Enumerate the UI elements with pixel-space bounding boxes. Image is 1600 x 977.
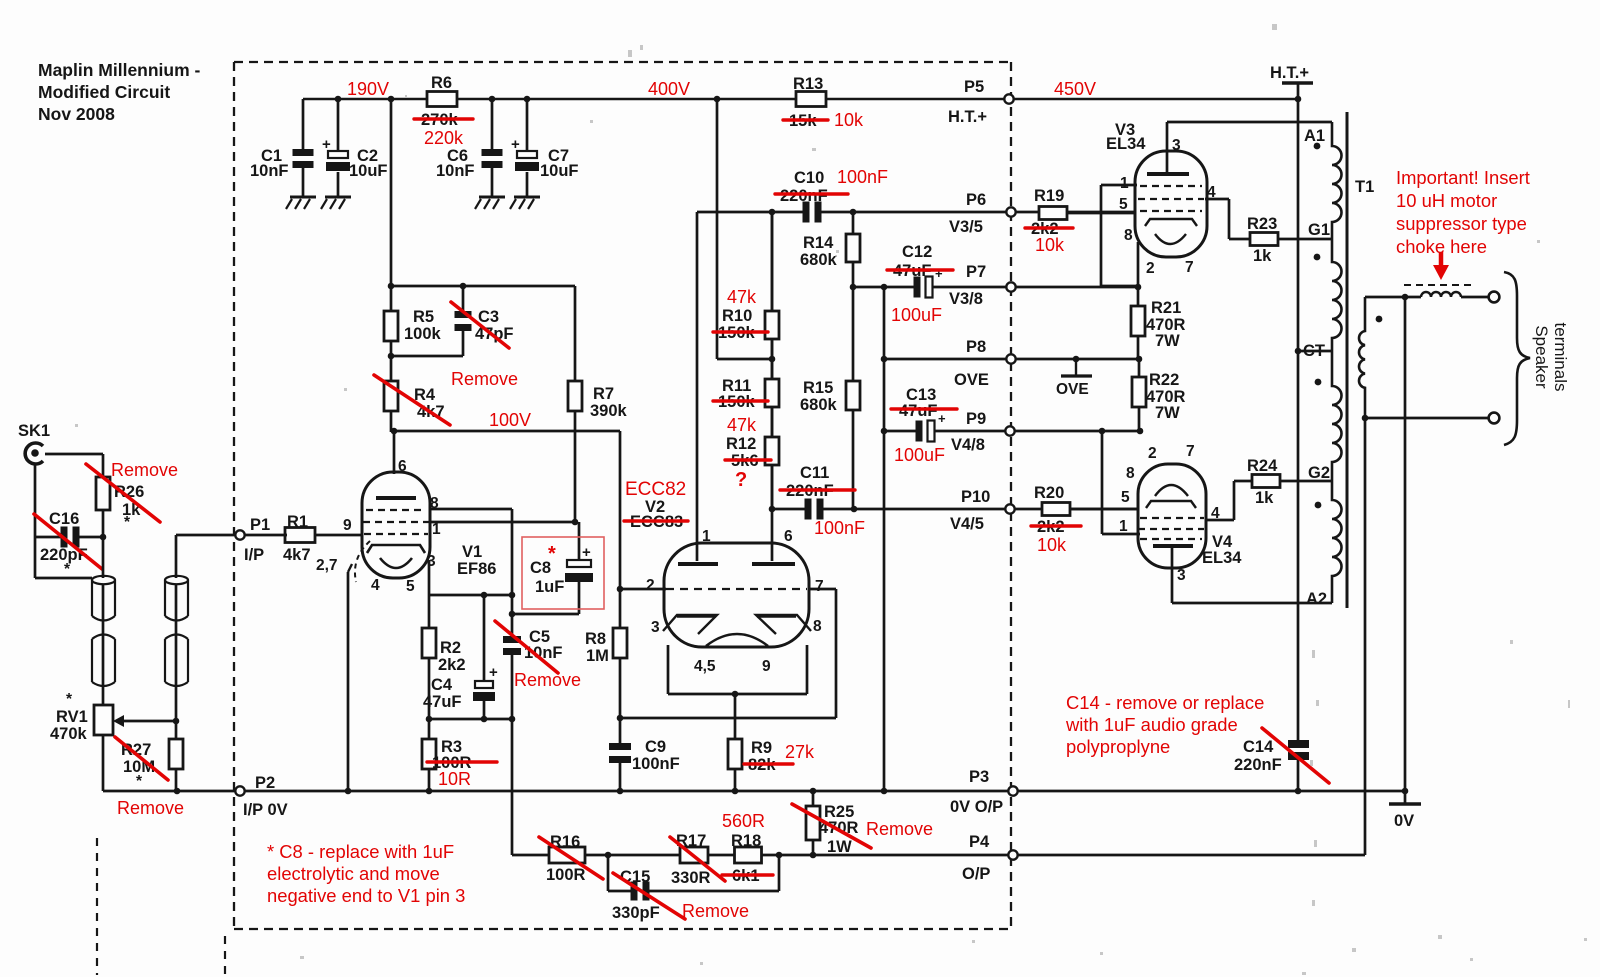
svg-text:RV1: RV1 [56,708,88,726]
pad P9 [1005,426,1014,435]
wire V1 cathode line [428,560,431,595]
svg-text:680k: 680k [800,251,838,269]
choke coil (suggested) [1421,292,1461,297]
svg-text:2: 2 [1146,260,1155,277]
capacitor C7 [526,99,529,151]
node HT+ vertical [1295,96,1302,103]
capacitor C3 [462,286,465,311]
wire P10 line V4/5 [772,508,1138,511]
resistor R13 [796,92,826,107]
svg-text:560R: 560R [722,811,765,831]
svg-text:10k: 10k [1037,535,1067,555]
svg-text:Maplin Millennium -: Maplin Millennium - [38,60,201,80]
resistor R3 [428,719,431,739]
svg-text:10nF: 10nF [436,162,475,180]
svg-text:C11: C11 [800,464,829,482]
wire R22 to P9 line [1138,407,1141,431]
svg-text:C9: C9 [645,738,666,756]
resistor R16 [549,847,585,863]
resistor R15 [852,287,855,381]
svg-text:T1: T1 [1355,178,1374,196]
V2 anode bar right [752,562,795,566]
wire R21 to OVE line [1137,336,1140,359]
svg-text:P8: P8 [966,338,986,356]
svg-text:* C8 - replace with 1uF: * C8 - replace with 1uF [267,841,454,862]
RV1 wiper arrow [123,720,176,723]
svg-text:SK1: SK1 [18,422,50,440]
svg-text:470k: 470k [50,725,88,743]
pad P8 [1006,354,1015,363]
svg-text:H.T.+: H.T.+ [948,108,987,126]
svg-text:R8: R8 [585,630,606,648]
resistor R2 [428,595,431,628]
svg-text:*: * [66,691,73,708]
ground under C6 [479,196,505,199]
svg-text:100nF: 100nF [632,755,680,773]
svg-text:P7: P7 [966,263,986,281]
red strike through R17 [670,837,725,881]
V2 heater dome [706,634,768,646]
speaker terminal bottom [1489,413,1500,424]
svg-text:27k: 27k [785,742,815,762]
wire V4 pin1/8 strap [1101,431,1104,534]
resistor R20 [1042,503,1070,516]
capacitor C12 electrolytic [921,277,926,298]
V2 grid pin2 stub [620,588,666,591]
node C7 top [524,96,531,103]
svg-text:7: 7 [1186,443,1195,460]
V2 anode bar left [678,562,718,566]
potentiometer RV1 [94,705,113,735]
V3 grid dashed lines [1140,185,1202,187]
wire output feedback line P4 [512,854,1365,857]
secondary phase dot [1376,316,1383,323]
svg-text:A2: A2 [1306,590,1327,608]
svg-text:EL34: EL34 [1106,135,1146,153]
svg-text:4,5: 4,5 [694,658,716,675]
red strike through C5 [495,621,558,673]
pad P2 [235,786,244,795]
svg-text:C16: C16 [49,510,79,528]
wire R23 to G1 [1278,238,1332,241]
svg-text:Remove: Remove [682,901,749,921]
speaker brace [1504,272,1530,445]
capacitor C9 [619,718,622,743]
svg-text:R12: R12 [726,435,756,453]
svg-text:400V: 400V [648,79,690,99]
red strike through R4 [374,375,450,425]
svg-text:7: 7 [1185,259,1194,276]
svg-text:1: 1 [702,528,711,545]
capacitor C6 [491,99,494,149]
pad P4 [1008,850,1017,859]
red strike through R25 [792,804,871,848]
svg-text:330R: 330R [671,869,711,887]
svg-text:5: 5 [1121,489,1130,506]
CT stub [1298,350,1332,353]
svg-text:P5: P5 [964,78,984,96]
svg-text:*: * [548,543,556,565]
resistor R23 [1250,233,1278,246]
svg-text:with 1uF audio grade: with 1uF audio grade [1065,714,1238,735]
V3 cathode [1145,219,1197,226]
capacitor C16 [35,536,103,539]
wire SK1 to R26 [45,453,103,456]
wire speaker bottom line [1365,417,1489,420]
capacitor C11 [812,499,817,520]
wire V4 anode to A2 [1171,545,1174,603]
svg-text:R24: R24 [1247,457,1278,475]
svg-text:100uF: 100uF [894,445,945,465]
svg-text:Remove: Remove [451,369,518,389]
board outline dashed border [234,61,1011,63]
svg-text:R14: R14 [803,234,834,252]
svg-text:450V: 450V [1054,79,1096,99]
svg-text:7W: 7W [1155,404,1180,422]
svg-text:P9: P9 [966,410,986,428]
pad P7 [1006,282,1015,291]
svg-text:OVE: OVE [1056,381,1089,398]
scan speckles [628,50,632,57]
resistor R26 [96,477,110,510]
V1 cathode [367,545,425,553]
svg-text:P4: P4 [969,833,990,851]
svg-text:Remove: Remove [111,460,178,480]
svg-text:EL34: EL34 [1202,549,1242,567]
resistor R9 [734,694,737,739]
wire 0V return from speaker line [1404,297,1407,791]
wire V1 grid from R1 [313,534,362,537]
wire P1 to R1 [245,534,287,537]
svg-text:Speaker: Speaker [1532,325,1551,389]
svg-text:V3/8: V3/8 [949,290,983,308]
wire secondary bottom to P4 output [1364,418,1367,855]
svg-text:*: * [124,514,131,531]
wire P8 OVE line [884,358,1139,361]
resistor R12 [765,437,779,465]
V1 grid dashed lines [366,509,426,511]
wire secondary top to choke [1365,296,1421,299]
svg-text:R21: R21 [1151,299,1181,317]
svg-text:100V: 100V [489,410,531,430]
svg-text:680k: 680k [800,396,838,414]
svg-text:EF86: EF86 [457,560,496,578]
node C6 top [489,96,496,103]
svg-text:ECC82: ECC82 [625,479,686,500]
svg-text:1uF: 1uF [535,578,564,596]
V2 cathode right [756,615,811,634]
svg-text:R20: R20 [1034,484,1064,502]
svg-text:5: 5 [1119,196,1128,213]
red strike through C15 [613,873,685,919]
svg-text:R23: R23 [1247,215,1277,233]
red box around C8 [522,537,604,609]
svg-text:electrolytic and move: electrolytic and move [267,863,440,884]
T1 terminal dots [1314,143,1321,150]
red strike through R16 [539,837,603,879]
svg-text:Remove: Remove [866,819,933,839]
svg-text:*: * [64,561,71,578]
svg-text:10 uH motor: 10 uH motor [1396,190,1497,211]
svg-text:2: 2 [646,577,655,594]
wire V3 anode to A1 [1166,122,1169,174]
wire R24 to G2 [1280,480,1332,483]
svg-text:10k: 10k [834,110,864,130]
tube V1 EF86 envelope [362,472,430,578]
svg-text:R4: R4 [414,386,436,404]
resistor R22 [1138,359,1141,377]
wire V2 anode to P6 line [697,211,1135,214]
svg-text:100uF: 100uF [891,305,942,325]
svg-text:C12: C12 [902,243,932,261]
svg-text:1: 1 [1120,175,1129,192]
wire V1 heater ground [348,564,352,572]
pad P3 [1008,786,1017,795]
wire R10 top to C10 line [771,212,774,311]
svg-text:C3: C3 [478,308,499,326]
svg-text:R2: R2 [440,639,461,657]
svg-text:I/P 0V: I/P 0V [243,801,288,819]
svg-text:10R: 10R [438,769,471,789]
svg-text:100R: 100R [546,866,586,884]
svg-text:P3: P3 [969,768,989,786]
pad P1 [235,530,244,539]
V2 bottom heater box [667,645,670,694]
svg-text:P2: P2 [255,774,275,792]
red strike through R26 [86,464,160,522]
svg-text:4: 4 [371,577,380,594]
svg-text:A1: A1 [1304,127,1325,145]
tube V2 envelope [664,543,809,647]
svg-text:220nF: 220nF [1234,756,1282,774]
svg-text:1k: 1k [1255,489,1274,507]
svg-text:Modified Circuit: Modified Circuit [38,82,170,102]
wire HT rail 190V/400V/450V [303,98,1296,101]
svg-text:7W: 7W [1155,332,1180,350]
svg-text:330pF: 330pF [612,904,660,922]
wire P7 line V3/8 [853,286,1138,289]
capacitor C13 electrolytic [923,421,928,442]
T1 core line [1346,112,1349,608]
resistor R21 [1137,287,1140,306]
svg-text:100nF: 100nF [837,167,888,187]
ground under C7 [514,196,540,199]
svg-text:V4/8: V4/8 [951,436,985,454]
svg-text:+: + [322,136,331,153]
svg-text:+: + [938,411,946,426]
svg-text:C15: C15 [620,868,650,886]
transformer T1 primary winding [1332,122,1342,603]
wire V3 pin1/8 strap [1101,184,1137,187]
svg-text:8: 8 [1124,227,1133,244]
red strike through C14 [1262,728,1329,783]
svg-text:100k: 100k [404,325,442,343]
wire C16 node down to cable [102,510,105,537]
ground symbol 0V [1389,802,1421,805]
pad P10 [1005,504,1014,513]
svg-text:R1: R1 [287,513,308,531]
wire HT+ to CT and C14 [1297,83,1300,741]
wire V3 pin4 to R23 [1205,198,1229,201]
capacitor C8 electrolytic [578,522,581,562]
wire V1 pin6 drop [393,431,396,474]
wire C5 node down to feedback line [511,719,514,855]
wire P9 line V4/8 [884,430,1140,433]
red strike through C3 [451,302,509,348]
capacitor C10 [810,202,815,223]
V1 label box [430,508,512,511]
resistor R17 [680,847,708,863]
svg-text:+: + [582,544,591,561]
svg-text:*: * [136,773,143,790]
svg-text:1: 1 [432,521,441,538]
svg-text:10k: 10k [1035,235,1065,255]
svg-text:10uF: 10uF [349,162,388,180]
wire cathode to C5 [511,595,514,637]
V4 cathode [1146,501,1196,508]
svg-text:suppressor type: suppressor type [1396,213,1527,234]
svg-text:R22: R22 [1149,371,1179,389]
svg-text:47k: 47k [727,287,757,307]
svg-text:P10: P10 [961,488,990,506]
svg-text:V1: V1 [462,543,482,561]
wire R2/C4 bottom [429,718,512,721]
wire 190V feed down to R5 network [390,99,393,286]
svg-text:C14 - remove or replace: C14 - remove or replace [1066,692,1264,713]
node R5 branch [388,96,395,103]
pad P6 [1006,207,1015,216]
red strike through R27 [115,737,168,780]
svg-text:9: 9 [343,517,352,534]
wire cable to RV1 [102,584,105,705]
V2 cathode left [663,615,717,634]
capacitor C5 [503,643,521,648]
svg-text:47uF: 47uF [899,402,938,420]
V4 anode bar [1153,544,1193,548]
capacitor C4 [483,595,486,681]
V1 anode bar [376,496,416,500]
svg-text:?: ? [735,469,747,491]
svg-text:P1: P1 [250,516,270,534]
svg-text:polyproplyne: polyproplyne [1066,736,1170,757]
svg-text:0V O/P: 0V O/P [950,798,1003,816]
svg-text:8: 8 [813,618,822,635]
OVE reference symbol [1075,359,1077,375]
red strike through C16 [34,514,102,569]
resistor R19 [1039,207,1067,220]
svg-text:47k: 47k [727,415,757,435]
svg-text:5: 5 [406,578,415,595]
svg-text:C10: C10 [794,169,824,187]
svg-text:negative end to V1 pin 3: negative end to V1 pin 3 [267,885,465,906]
svg-text:R7: R7 [593,385,614,403]
V3 anode bar [1147,172,1189,176]
resistor R14 [852,212,855,234]
resistor R11 [765,379,779,407]
svg-text:I/P: I/P [244,546,264,564]
svg-text:terminals: terminals [1551,323,1570,392]
resistor R5 [390,286,393,311]
wire 400V feed [716,99,719,359]
wire anode line to V2 grid [619,431,622,628]
speaker terminal top [1489,292,1500,303]
node C2 top [335,96,342,103]
T1 secondary winding [1359,297,1365,418]
svg-text:100nF: 100nF [814,518,865,538]
resistor R6 [427,92,457,107]
svg-text:H.T.+: H.T.+ [1270,64,1309,82]
tube V3 envelope [1135,151,1207,257]
svg-text:R6: R6 [431,74,452,92]
svg-text:R15: R15 [803,379,833,397]
ground under C1 [290,196,316,199]
svg-text:3: 3 [1172,137,1181,154]
resistor R4 [390,356,393,381]
svg-text:R18: R18 [731,832,761,850]
svg-text:R13: R13 [793,75,823,93]
V4 heater dome [1155,485,1188,496]
wire screen feed R7 to V1 pin1 [430,521,575,524]
svg-text:Remove: Remove [514,670,581,690]
svg-text:Nov 2008: Nov 2008 [38,104,115,124]
svg-text:P6: P6 [966,191,986,209]
V1 heater arc [380,558,412,568]
svg-text:V4/5: V4/5 [950,515,984,533]
svg-text:8: 8 [1126,465,1135,482]
svg-text:C4: C4 [431,676,453,694]
svg-text:1k: 1k [1253,247,1272,265]
svg-text:9: 9 [762,658,771,675]
svg-text:6: 6 [784,528,793,545]
svg-text:220nF: 220nF [780,187,828,205]
svg-text:O/P: O/P [962,865,990,883]
wire SK1 down and wrap to cable [34,464,37,578]
wire R5/C3 bottom [391,355,463,358]
capacitor C2 [337,99,340,151]
resistor R8 [613,628,627,658]
wire R5/C3 top rail [391,285,575,288]
wire V4 pin4 to R24 [1205,519,1234,522]
svg-text:2,7: 2,7 [316,557,338,574]
svg-text:Important! Insert: Important! Insert [1396,167,1530,188]
svg-text:390k: 390k [590,402,628,420]
svg-text:3: 3 [651,619,660,636]
svg-text:10nF: 10nF [250,162,289,180]
svg-text:7: 7 [815,578,824,595]
svg-text:10uF: 10uF [540,162,579,180]
screened cable left [92,576,115,584]
svg-text:6: 6 [398,458,407,475]
svg-text:V3/5: V3/5 [949,218,983,236]
svg-text:R10: R10 [722,307,752,325]
svg-text:C14: C14 [1243,738,1274,756]
svg-text:47uF: 47uF [423,693,462,711]
node 400V feed [714,96,721,103]
svg-text:R5: R5 [413,308,434,326]
resistor R7 [574,286,577,381]
svg-text:1: 1 [1119,518,1128,535]
capacitor C1 [302,99,305,149]
svg-text:+: + [489,664,498,681]
V2 grid dashed line [666,588,807,590]
svg-text:+: + [511,136,520,153]
svg-text:R19: R19 [1034,187,1064,205]
wire 100V anode line [391,430,620,433]
ground under C2 [325,196,351,199]
resistor R24 [1252,475,1280,488]
resistor R10 [765,311,779,339]
V3 heater arc [1155,234,1186,244]
